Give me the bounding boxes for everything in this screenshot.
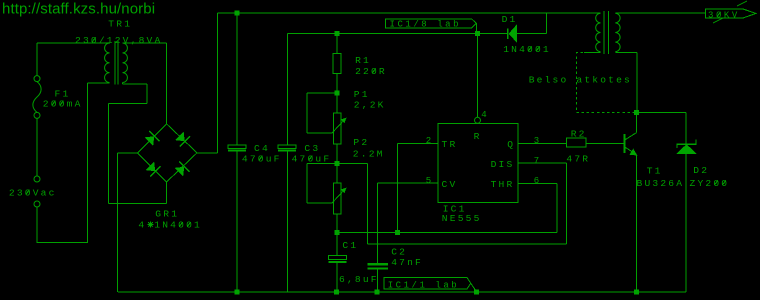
wire (108, 103, 147, 104)
svg-text:P2: P2 (353, 137, 369, 148)
svg-text:THR: THR (491, 179, 515, 190)
transformer TR1 primary coil (105, 43, 110, 83)
svg-text:200mA: 200mA (43, 98, 83, 109)
svg-text:2: 2 (426, 136, 434, 146)
wire (615, 52, 637, 53)
wire (636, 53, 637, 113)
net flag IC1/8 lab (386, 19, 477, 28)
wire (397, 143, 398, 232)
junction (234, 11, 239, 16)
svg-text:IC1/8 lab: IC1/8 lab (390, 20, 462, 30)
transformer TR1 secondary coil (123, 43, 128, 83)
wire (307, 93, 308, 133)
svg-text:470uF: 470uF (292, 153, 332, 164)
wire (637, 112, 686, 113)
wire (476, 23, 477, 33)
junction (634, 110, 639, 115)
svg-text:R2: R2 (571, 129, 587, 140)
wire (377, 270, 378, 292)
wire (37, 207, 38, 243)
wire (123, 43, 167, 44)
svg-text:4 1N4001: 4 1N4001 (138, 220, 202, 231)
wire (337, 34, 338, 54)
HV transformer core (604, 11, 605, 54)
capacitor C2 (367, 263, 388, 265)
wire (307, 93, 337, 94)
svg-text:BU326A: BU326A (637, 178, 685, 189)
svg-text:1N4001: 1N4001 (503, 44, 551, 55)
svg-text:GR1: GR1 (155, 209, 179, 220)
pin bubble pin4 (475, 117, 481, 123)
wire (337, 263, 338, 292)
junction (475, 31, 480, 36)
zener D2 (677, 144, 697, 145)
wire (307, 133, 332, 134)
potentiometer P1 (334, 113, 341, 144)
wire bottom rail (118, 292, 686, 293)
wire (337, 73, 338, 93)
wire (108, 103, 109, 203)
wire (236, 152, 237, 292)
svg-text:D1: D1 (502, 14, 518, 25)
svg-text:47R: 47R (566, 154, 590, 165)
wire (377, 183, 378, 263)
wire (546, 13, 547, 33)
svg-text:3: 3 (534, 136, 542, 146)
svg-text:7: 7 (534, 156, 542, 166)
wire (307, 203, 332, 204)
capacitor C4 (228, 145, 246, 149)
wire pin5 (377, 183, 438, 184)
svg-text:230Vac: 230Vac (9, 187, 57, 198)
tear mark (737, 1, 747, 6)
svg-text:NE555: NE555 (442, 213, 482, 224)
wire (166, 182, 167, 204)
wire pin7 (518, 163, 566, 164)
junction (374, 290, 379, 295)
svg-text:6: 6 (534, 176, 542, 186)
diode GR1 bottom-right (175, 167, 184, 176)
op-amp IC1 NE555 box (438, 124, 518, 203)
wire (37, 118, 38, 176)
svg-text:220R: 220R (355, 66, 387, 77)
junction (634, 290, 639, 295)
wire (337, 214, 338, 256)
wire (37, 43, 110, 44)
wire pin6 (518, 183, 557, 184)
wire (337, 144, 338, 183)
junction (335, 161, 340, 166)
wire (117, 153, 118, 292)
wire (367, 163, 368, 243)
junction (334, 290, 339, 295)
diode D1 (509, 25, 517, 42)
wire V+ distribution (287, 33, 507, 34)
wire (367, 243, 566, 244)
svg-text:http://staff.kzs.hu/norbi: http://staff.kzs.hu/norbi (2, 1, 155, 18)
wire (217, 13, 218, 153)
capacitor C3 (278, 145, 296, 149)
net flag IC1/1 lab (384, 277, 471, 289)
transistor T1 collector (626, 133, 637, 140)
svg-text:Belso atkotes: Belso atkotes (529, 74, 632, 85)
svg-text:6,8uF: 6,8uF (339, 274, 379, 285)
wire top rail (218, 13, 601, 14)
resistor R2 (566, 138, 586, 147)
fuse F1 (34, 76, 40, 82)
svg-text:C1: C1 (342, 240, 358, 251)
wire (108, 203, 166, 204)
junction (334, 230, 339, 235)
wire pin2 (398, 143, 438, 144)
wire (307, 163, 308, 203)
wire (636, 155, 637, 292)
wire (37, 242, 88, 243)
svg-text:T1: T1 (647, 166, 663, 177)
wire (686, 112, 687, 144)
svg-text:4: 4 (481, 110, 489, 120)
wire (147, 84, 148, 103)
svg-text:DIS: DIS (491, 159, 515, 170)
wire (686, 154, 687, 293)
terminal circle (34, 201, 40, 207)
dashed wire (576, 53, 636, 113)
svg-text:2.2M: 2.2M (353, 148, 385, 159)
svg-text:Q: Q (507, 139, 515, 150)
svg-text:CV: CV (442, 179, 458, 190)
svg-text:470uF: 470uF (242, 153, 282, 164)
svg-text:C4: C4 (254, 143, 270, 154)
wire (87, 83, 88, 243)
wire (37, 43, 38, 76)
svg-text:5: 5 (426, 176, 434, 186)
svg-text:47nF: 47nF (391, 257, 423, 268)
svg-text:TR1: TR1 (108, 18, 132, 29)
diode GR1 bottom-left (146, 162, 155, 171)
junction (335, 31, 340, 36)
HV transformer primary coil (615, 13, 620, 52)
wire (122, 83, 123, 85)
wire (337, 232, 557, 233)
svg-text:IC1/1 lab: IC1/1 lab (388, 280, 460, 290)
wire (236, 13, 237, 145)
wire (471, 283, 477, 292)
junction (474, 290, 479, 295)
wire pin3 (518, 143, 566, 144)
svg-text:C3: C3 (304, 143, 320, 154)
bridge GR1 outline (138, 124, 167, 153)
HV transformer secondary coil (596, 13, 601, 52)
wire (337, 93, 338, 113)
terminal circle (34, 176, 40, 182)
wire (615, 13, 705, 14)
resistor R1 (333, 53, 341, 73)
wire (166, 43, 167, 124)
wire (556, 183, 557, 232)
transformer TR1 core (115, 41, 116, 85)
svg-text:C2: C2 (391, 246, 407, 257)
svg-text:2,2K: 2,2K (354, 100, 386, 111)
wire (636, 112, 637, 132)
svg-text:30KV: 30KV (708, 10, 740, 20)
svg-text:R1: R1 (355, 55, 371, 66)
net flag 30KV (706, 9, 756, 18)
potentiometer P2 (334, 183, 341, 214)
junction (235, 290, 240, 295)
diode GR1 top-left (145, 137, 154, 146)
capacitor C1 (328, 256, 346, 260)
wire (287, 34, 288, 145)
wire (586, 143, 624, 144)
svg-text:R: R (474, 131, 482, 142)
wire (118, 152, 138, 153)
wire (197, 152, 218, 153)
wire (287, 152, 288, 292)
svg-text:230/12V,8VA: 230/12V,8VA (75, 35, 162, 46)
junction (395, 230, 400, 235)
wire (477, 34, 478, 118)
transistor T1 base bar (624, 134, 626, 153)
svg-text:TR: TR (442, 139, 458, 150)
wire (337, 163, 367, 164)
svg-text:D2: D2 (693, 165, 709, 176)
wire (566, 163, 567, 244)
transistor T1 emitter (626, 148, 637, 155)
wire (584, 52, 601, 53)
wire (307, 163, 337, 164)
svg-text:P1: P1 (354, 89, 370, 100)
junction (335, 91, 340, 96)
wire (88, 82, 110, 83)
wire (517, 33, 547, 34)
diode GR1 top-right (176, 132, 185, 141)
